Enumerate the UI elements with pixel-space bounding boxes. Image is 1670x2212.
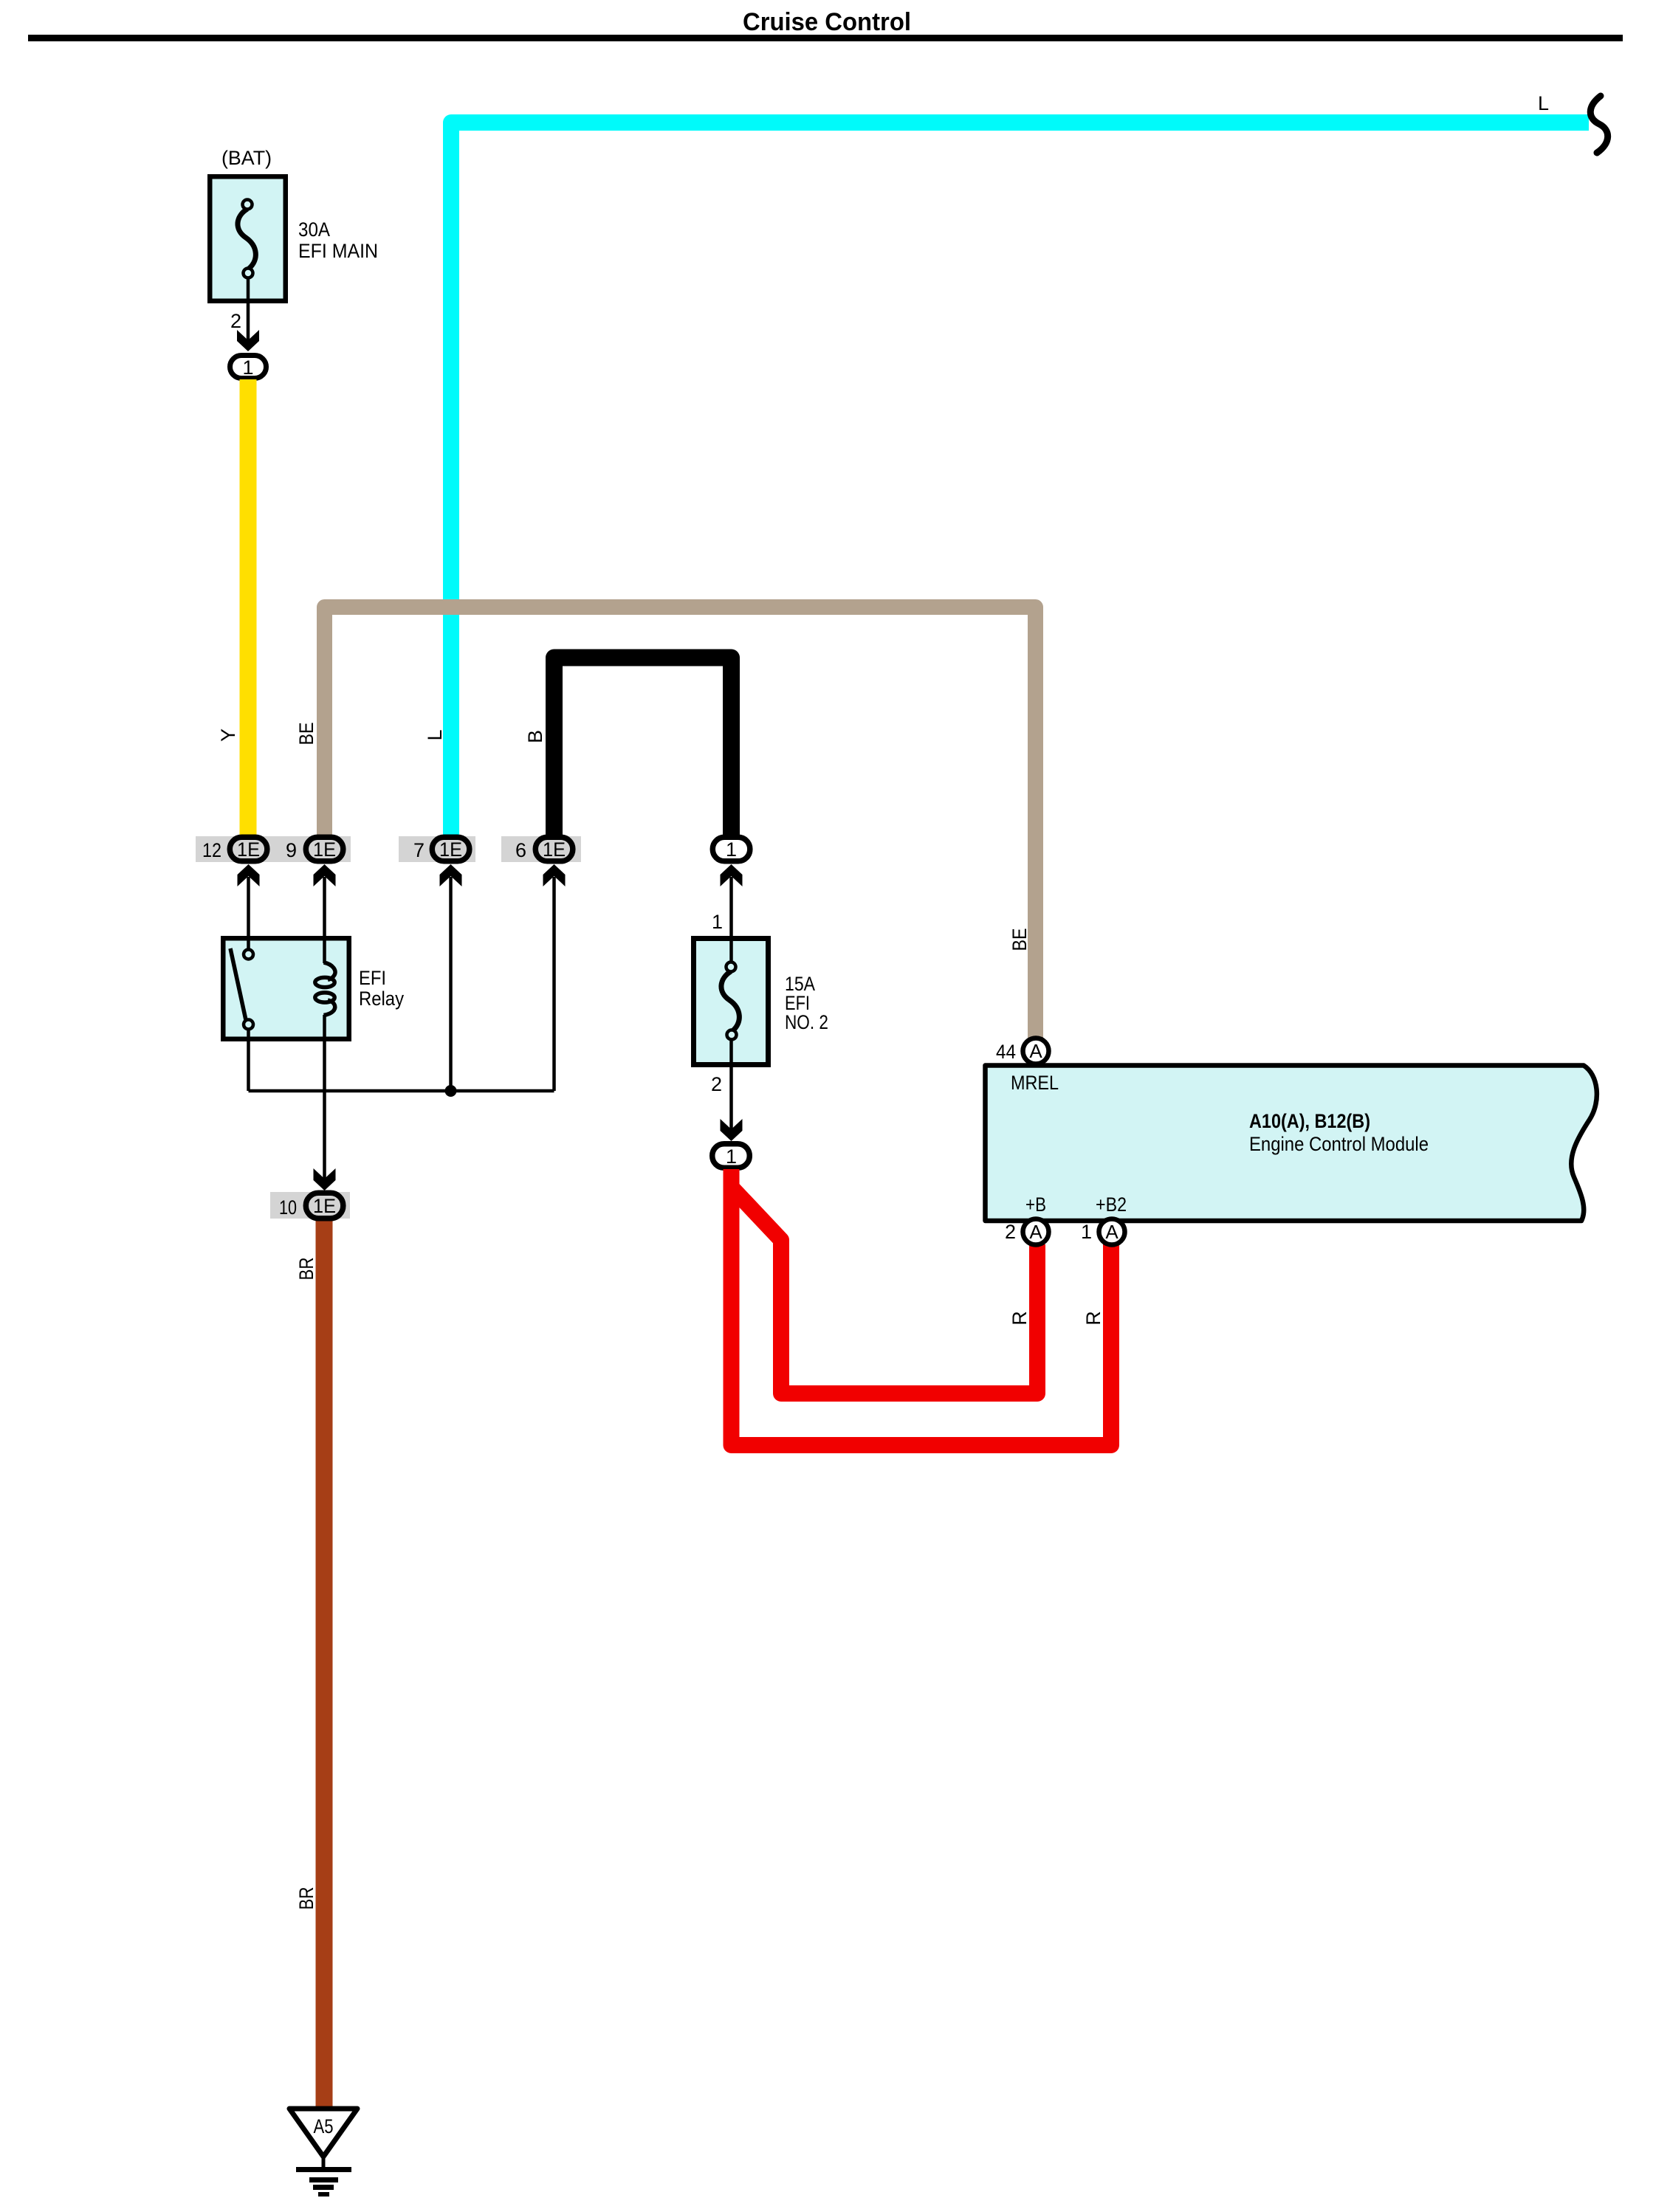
wire BE (tan) from 9(1E) up, right, and down to ECM 44(A) [325,607,1036,1040]
ground bar 1 [296,2167,351,2172]
connector band 1E (pin 7) [399,836,475,862]
connector 1 (above 15A fuse) [712,837,750,861]
ground stem [322,2157,326,2169]
pin 2 of fuse 30A: lead wire [247,278,250,340]
wire from 12(1E) to relay switch contact [247,877,250,950]
svg-text:2: 2 [230,310,241,332]
relay coil symbol [315,962,335,1016]
title rule [28,35,1623,41]
arrow into 7(1E) [440,864,462,886]
relay EFI Relay box [223,938,349,1039]
svg-text:B: B [524,730,546,743]
svg-text:BR: BR [295,1887,317,1910]
connector 7 (1E) [413,837,470,861]
wire from connector 1 into 15A fuse pin 1 [729,877,733,963]
connector 1 (below 30A fuse) [230,356,267,379]
svg-text:BE: BE [295,723,317,745]
svg-text:A: A [1029,1221,1042,1243]
svg-text:+B: +B [1025,1193,1046,1216]
svg-text:1: 1 [1081,1221,1092,1243]
connector 1 (A) on ECM [1099,1219,1125,1245]
svg-text:1E: 1E [313,1195,336,1217]
svg-text:EFI MAIN: EFI MAIN [298,240,378,262]
svg-text:BR: BR [295,1258,317,1281]
wire R (red) inner branch: to ECM +B 2(A) [732,1188,1037,1393]
connector 44 (A) on ECM [1023,1038,1049,1064]
arrow into 12(1E) [238,864,260,886]
svg-text:9: 9 [286,839,297,861]
ECM A10(A), B12(B) Engine Control Module box [986,1066,1597,1222]
svg-text:1: 1 [242,356,253,379]
pin 2 lead of 15A fuse [729,1039,733,1129]
wire L (cyan) from ECM junction area up and right off-page [451,123,1589,838]
svg-text:1: 1 [726,1145,737,1168]
wire from relay switch to link wire [247,1027,250,1091]
svg-text:Cruise Control: Cruise Control [743,8,911,36]
svg-text:30A: 30A [298,218,330,241]
svg-text:1E: 1E [439,838,462,861]
wire from 6(1E) down to link wire [552,877,556,1091]
ground A5 symbol: triangle [289,2109,357,2157]
svg-text:1: 1 [726,838,737,861]
connector band 1E (pin 6) [501,836,581,862]
svg-text:6: 6 [515,839,526,861]
wire from 7(1E) down to junction [449,877,453,1091]
wire from relay coil down to 10(1E) [323,1015,326,1179]
connector 12 (1E) [202,837,267,861]
svg-text:12: 12 [202,839,221,861]
connector 1 (below 15A fuse) [712,1144,750,1168]
svg-text:Relay: Relay [359,988,404,1010]
wire Y (yellow) from connector 1 to 12(1E) [240,379,257,838]
svg-text:(BAT): (BAT) [221,147,272,169]
svg-text:1E: 1E [543,838,566,861]
svg-text:R: R [1008,1311,1031,1326]
arrow into 6(1E) [543,864,566,886]
svg-text:A5: A5 [314,2115,334,2137]
link wire below relay [249,1089,554,1093]
svg-text:A10(A), B12(B): A10(A), B12(B) [1249,1110,1370,1132]
svg-text:Engine Control Module: Engine Control Module [1249,1133,1429,1155]
svg-text:1E: 1E [237,838,260,861]
connector 6 (1E) [515,837,573,861]
svg-text:44: 44 [996,1041,1016,1063]
svg-text:BE: BE [1008,928,1031,951]
svg-text:A: A [1105,1221,1119,1243]
svg-text:1: 1 [712,911,723,933]
fuse 15A element symbol [721,962,739,1040]
arrow into connector 1 (below 15A fuse) [721,1119,743,1141]
wire B (black) from 6(1E) up and over to connector 1 above 15A fuse [554,658,732,838]
fuse 15A EFI NO. 2 box [694,939,769,1065]
arrow into connector 1 (below 30A fuse) [237,330,259,351]
ground bar 2 [309,2177,338,2182]
fuse 30A EFI MAIN box [210,176,286,301]
svg-text:+B2: +B2 [1096,1193,1127,1216]
wire R (red) outer run: connector 1 to ECM +B2 1(A) [732,1169,1112,1445]
ground bar 4 [318,2192,329,2197]
ground bar 3 [313,2185,334,2190]
off-page continuation squiggle for wire L [1590,96,1607,153]
svg-text:2: 2 [1005,1221,1016,1243]
svg-text:7: 7 [413,839,425,861]
connector 9 (1E) [286,837,343,861]
junction node [445,1085,457,1097]
svg-text:MREL: MREL [1011,1072,1059,1094]
svg-text:EFI: EFI [359,967,386,989]
connector 10 (1E) [279,1193,343,1219]
svg-text:NO. 2: NO. 2 [785,1011,828,1033]
wire from 9(1E) to relay coil [323,877,326,963]
relay switch contacts and blade [230,948,253,1030]
wire BR (brown) from 10(1E) to ground A5 [316,1221,333,2109]
svg-text:10: 10 [279,1196,297,1219]
arrow into connector 1 (above 15A fuse) [721,864,743,886]
connector band 1E (pin 10) [270,1192,350,1219]
svg-text:L: L [424,729,446,740]
connector band 1E (pins 12, 9) [196,836,351,862]
fuse 30A element symbol [238,200,255,278]
arrow into 9(1E) [314,864,336,886]
svg-text:R: R [1082,1311,1104,1326]
svg-text:1E: 1E [313,838,336,861]
connector 2 (A) on ECM [1023,1219,1049,1245]
svg-text:2: 2 [711,1073,722,1095]
svg-text:L: L [1538,92,1549,114]
svg-text:A: A [1029,1040,1042,1062]
arrow into 10(1E) [314,1168,336,1191]
svg-text:Y: Y [217,728,239,742]
